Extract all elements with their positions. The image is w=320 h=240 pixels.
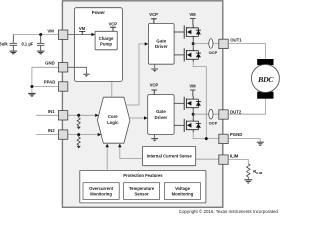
wire protection to core logic <box>106 147 108 170</box>
pin ILIM <box>219 155 228 164</box>
ground bulk cap <box>10 51 18 54</box>
chip outline U1 <box>62 1 222 208</box>
capacitor C1 0.1uF <box>37 35 45 51</box>
net tick VCP charge pump <box>110 27 116 31</box>
motor terminal top <box>257 59 273 65</box>
sense ellipse OCP1 <box>209 39 213 49</box>
net tick VCP gate driver 2 <box>151 90 157 95</box>
ground RILIM <box>244 180 252 183</box>
svg-text:Gate: Gate <box>156 38 166 43</box>
ground PGND <box>257 142 264 145</box>
pin PPAD <box>58 82 67 91</box>
ground 0.1uF cap <box>37 51 45 54</box>
svg-text:Core: Core <box>108 114 118 119</box>
svg-text:VM: VM <box>79 26 86 31</box>
block Internal Current Sense <box>143 146 196 165</box>
ground arrow IN2 pulldown <box>77 146 81 149</box>
capacitor bulk <box>10 35 18 51</box>
svg-text:Power: Power <box>92 10 105 15</box>
pin PGND <box>219 134 228 143</box>
svg-text:VM: VM <box>47 29 54 34</box>
svg-text:PGND: PGND <box>230 132 242 137</box>
resistor pulldown IN1 <box>77 115 80 126</box>
block Gate Driver 1 <box>148 24 174 65</box>
wire bridge1 mid node <box>192 39 194 48</box>
svg-text:VCP: VCP <box>149 12 158 17</box>
wire current sense to core logic <box>120 147 143 158</box>
node IN1 junction <box>77 114 80 117</box>
pin IN1 <box>58 111 67 120</box>
wire IN2 internal <box>68 134 98 136</box>
wire VM external <box>13 34 58 36</box>
svg-text:Sensor: Sensor <box>134 191 149 196</box>
svg-text:VCP: VCP <box>108 22 117 27</box>
svg-text:VCP: VCP <box>150 83 159 88</box>
motor terminal bottom <box>257 92 273 99</box>
wire GND to power ground <box>68 67 86 74</box>
svg-text:BDC: BDC <box>257 75 274 84</box>
transistor M2 low-side bridge1 <box>174 48 201 62</box>
svg-text:Temperature: Temperature <box>129 186 155 191</box>
block Overcurrent Monitoring <box>83 183 119 200</box>
svg-text:IN1: IN1 <box>48 109 55 114</box>
sense ellipse OCP2 <box>209 109 213 119</box>
svg-text:OCP: OCP <box>209 121 218 126</box>
arrow IN2 into core logic <box>98 133 102 136</box>
ground gate driver 2 <box>154 134 156 138</box>
block Core Logic <box>97 97 129 143</box>
pin OUT2 <box>219 110 228 119</box>
node PGND junction <box>205 137 208 140</box>
node GND/PPAD junction <box>30 85 33 88</box>
block Protection Features <box>80 170 206 203</box>
arrow current sense into core logic <box>118 144 121 148</box>
transistor M4 low-side bridge2 <box>174 118 201 132</box>
resistor RILIM <box>247 164 251 180</box>
wire IN2 external <box>36 134 58 136</box>
pin VM <box>58 30 67 39</box>
wire PGND to ground <box>228 139 260 142</box>
wire current sense to ILIM <box>196 158 219 160</box>
wire bridge2 mid node <box>192 110 194 118</box>
net tick VM power <box>79 31 85 34</box>
ground arrow power <box>83 73 89 75</box>
svg-text:Monitoring: Monitoring <box>90 191 112 196</box>
node bridge1 mid <box>192 42 195 45</box>
net tick VM bridge1 <box>190 19 196 26</box>
transistor M3 high-side bridge2 <box>174 96 201 110</box>
svg-text:PPAD: PPAD <box>44 80 56 85</box>
svg-text:OUT1: OUT1 <box>230 37 242 42</box>
resistor pulldown IN2 <box>77 135 80 146</box>
wire OUT2 to motor <box>228 99 265 115</box>
ground arrow IN1 pulldown <box>77 127 81 130</box>
node IN2 junction <box>77 133 80 136</box>
wire GND/PPAD external <box>32 67 59 93</box>
svg-text:Driver: Driver <box>155 115 168 120</box>
block Charge Pump <box>95 31 117 50</box>
pin IN2 <box>58 130 67 139</box>
block Power <box>74 8 122 82</box>
arrow into gate driver 1 <box>145 42 149 45</box>
wire IN1 internal <box>68 114 96 116</box>
wire VM to charge pump <box>68 34 92 36</box>
wire bridge2 source down to PGND node <box>193 132 219 138</box>
pin GND <box>58 63 67 72</box>
svg-text:Bulk: Bulk <box>0 41 8 46</box>
wire power to core logic <box>111 81 113 97</box>
node bridge2 mid <box>192 113 195 116</box>
transistor M1 high-side bridge1 <box>174 25 201 39</box>
block Gate Driver 2 <box>148 95 174 135</box>
wire OUT1 to motor <box>228 44 265 60</box>
node VM junction <box>39 33 42 36</box>
svg-text:OCP: OCP <box>209 50 218 55</box>
ground GND/PPAD <box>28 93 36 96</box>
svg-text:0.1 µF: 0.1 µF <box>21 42 33 47</box>
svg-text:Monitoring: Monitoring <box>172 191 194 196</box>
svg-text:Copyright © 2016, Texas Instru: Copyright © 2016, Texas Instruments Inco… <box>179 208 279 214</box>
svg-text:GND: GND <box>45 60 55 65</box>
svg-text:Pump: Pump <box>100 41 112 46</box>
svg-text:Voltage: Voltage <box>175 186 190 191</box>
wire core logic to gate driver 1 <box>126 44 145 105</box>
svg-text:Protection Features: Protection Features <box>123 173 163 178</box>
ground gate driver 1 <box>154 64 156 68</box>
svg-text:Logic: Logic <box>107 120 119 125</box>
svg-text:Charge: Charge <box>99 36 114 41</box>
svg-text:VM: VM <box>189 12 196 17</box>
net tick VM bridge2 <box>190 90 196 96</box>
svg-text:Driver: Driver <box>155 44 168 49</box>
wire bridge1 source down to PGND node <box>193 62 206 139</box>
wire core logic to gate driver 2 <box>129 117 144 119</box>
wire node to OCP1 <box>193 43 219 45</box>
arrow into gate driver 2 <box>144 116 148 119</box>
wire node to OCP2 <box>193 113 219 115</box>
arrow into charge pump <box>91 33 95 37</box>
block Voltage Monitoring <box>164 183 200 200</box>
svg-text:Gate: Gate <box>156 109 166 114</box>
wire ILIM to resistor <box>228 159 248 163</box>
svg-text:Overcurrent: Overcurrent <box>89 186 114 191</box>
block Temperature Sensor <box>124 183 160 200</box>
arrow protection into core logic <box>106 144 109 148</box>
wire IN1 external <box>36 114 58 116</box>
arrow IN1 into core logic <box>95 114 99 117</box>
pin OUT1 <box>219 39 228 48</box>
svg-text:ILIM: ILIM <box>230 154 239 159</box>
net tick VCP gate driver 1 <box>151 19 157 24</box>
svg-text:IN2: IN2 <box>48 128 55 133</box>
svg-text:Internal Current Sense: Internal Current Sense <box>147 154 193 159</box>
svg-text:VM: VM <box>189 84 196 89</box>
motor BDC <box>251 64 279 92</box>
